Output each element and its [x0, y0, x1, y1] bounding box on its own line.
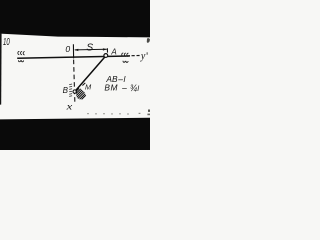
right squiggle top (cut text) [122, 53, 129, 56]
right squiggle bottom (cut text) [123, 61, 128, 63]
rod AB [76, 57, 105, 91]
S dimension left arrowhead [74, 49, 78, 51]
S dimension line [75, 48, 107, 51]
left margin squiggle top (cut text) [18, 51, 25, 54]
hinge circle at B [73, 90, 76, 93]
slider ring at A [104, 54, 108, 58]
wall hatching left of dashed line [69, 84, 72, 96]
svg-text:BM–: BM– [104, 83, 127, 93]
stray mark after y [147, 52, 148, 54]
paper background [0, 0, 150, 150]
left black scan strip [0, 33, 2, 105]
support hatching at B [76, 88, 86, 99]
tick at A end of dimension [106, 48, 108, 52]
bottom black scan band [0, 118, 150, 150]
faint dotted scan row [87, 113, 129, 115]
right edge speck top [147, 38, 150, 43]
left margin squiggle bottom (cut text) [18, 60, 23, 62]
S dimension right arrowhead [103, 48, 107, 50]
svg-text:B: B [63, 86, 69, 95]
y axis dash-dot continuation [132, 55, 140, 57]
svg-text:10: 10 [3, 37, 10, 48]
svg-text:x: x [65, 103, 73, 113]
top black scan band [0, 0, 150, 37]
svg-text:A: A [110, 48, 116, 57]
x axis dashed line [74, 60, 75, 104]
svg-text:0: 0 [65, 44, 70, 54]
svg-text:S: S [86, 43, 93, 54]
origin tick [72, 44, 74, 58]
y axis line [17, 56, 130, 58]
svg-text:¾l: ¾l [130, 83, 140, 93]
M tick on rod [82, 83, 85, 86]
svg-text:y: y [140, 51, 146, 62]
svg-text:M: M [85, 83, 92, 92]
right edge specks bottom [148, 110, 150, 112]
